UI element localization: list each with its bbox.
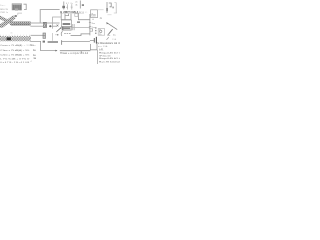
svg-text:Req=4.45 kO t: Req=4.45 kO t — [99, 57, 120, 60]
svg-text:Req=4.45 kO t: Req=4.45 kO t — [99, 52, 120, 55]
arrow into U2 — [56, 28, 61, 32]
U2 dark bar — [63, 23, 71, 25]
svg-text:2x Resistors tol 4: 2x Resistors tol 4 — [96, 41, 120, 45]
top-right hook — [109, 3, 111, 7]
relay K1 box — [98, 29, 104, 36]
svg-text:v..: v.. — [85, 12, 88, 14]
wire step from J1 — [20, 9, 22, 11]
svg-text:rm: rm — [10, 32, 13, 34]
bottom rail — [60, 50, 91, 52]
cross tick — [57, 25, 59, 27]
dark blob on band — [7, 37, 11, 40]
leader line — [107, 23, 118, 30]
switch SW1 — [108, 29, 113, 35]
wire top right drop — [78, 13, 90, 20]
svg-text:Mw: Mw — [30, 45, 34, 47]
lower rail — [61, 40, 90, 42]
svg-text:b R.: b R. — [99, 49, 104, 51]
right header box — [91, 10, 98, 18]
svg-text:L 7% % dB + 3 7% O: L 7% % dB + 3 7% O — [0, 58, 29, 60]
svg-text:R=1.78 3.04 tol: R=1.78 3.04 tol — [99, 60, 120, 63]
halftone bus band — [0, 36, 31, 41]
dashed link — [95, 27, 96, 28]
vertical crossing wire — [53, 17, 61, 29]
node dot — [57, 34, 59, 36]
resistor bar R3 — [43, 41, 45, 43]
shielded ribbon cable — [10, 22, 31, 25]
cable braid band B — [0, 16, 13, 26]
coil dashes — [64, 33, 66, 35]
step bracket — [89, 29, 93, 31]
wire mid left — [31, 34, 44, 36]
svg-text:m o. 1.5A: m o. 1.5A — [98, 45, 108, 48]
svg-text:C2ine = 75 dB(A) + 5%: C2ine = 75 dB(A) + 5% — [0, 54, 29, 57]
wire corner to top cluster — [40, 10, 59, 23]
polarized cap C1 — [43, 33, 46, 38]
U2 right pins — [72, 24, 74, 30]
svg-text:SPi bus 3.3: SPi bus 3.3 — [99, 55, 111, 57]
note band right — [107, 37, 109, 40]
wire after coil — [71, 34, 90, 36]
return loop box — [90, 44, 97, 50]
wire from FB1 — [47, 22, 60, 24]
rail stub — [80, 51, 82, 54]
wire from junction — [50, 25, 57, 27]
sparse dot row — [0, 34, 30, 36]
svg-text:PWR 1n: PWR 1n — [0, 12, 9, 14]
svg-text:MDL 5V: MDL 5V — [0, 9, 8, 11]
top cluster pin 1 — [63, 2, 65, 10]
rail tick 1 — [89, 21, 91, 23]
rail end tick — [61, 40, 63, 45]
faint cell — [115, 3, 117, 14]
right rail — [89, 14, 91, 35]
wire upper conductor — [30, 22, 43, 24]
svg-text:C1ine = 75 dB(A) + 5%: C1ine = 75 dB(A) + 5% — [0, 49, 29, 52]
wire lower conductor — [30, 25, 43, 27]
svg-text:c: c — [56, 31, 57, 33]
cable braid band A — [0, 15, 16, 27]
rail tick 2 — [89, 25, 91, 27]
node mark — [15, 15, 17, 17]
svg-text:Cmax = 75 dB(A): Cmax = 75 dB(A) — [0, 44, 22, 47]
bracket pin of J1 — [24, 4, 27, 9]
coil L1 hook — [61, 31, 62, 36]
U2 lower body — [62, 27, 71, 31]
junction dot — [49, 25, 51, 27]
connector J1 — [12, 4, 22, 10]
svg-text:5 v—: 5 v— — [0, 5, 6, 7]
svg-text:0 x 4 T B - 2 B r 4 1 0 B: 0 x 4 T B - 2 B r 4 1 0 B — [0, 61, 30, 64]
crossing vertical — [51, 33, 53, 41]
component U2 box — [61, 20, 71, 27]
wire from U2 right — [72, 27, 90, 29]
wire with arrow — [30, 41, 55, 50]
wires into U2 — [60, 12, 62, 20]
battery BT1 — [90, 39, 94, 41]
table border — [97, 50, 99, 64]
top-right wire — [106, 2, 108, 13]
ferrite bead FB1 — [43, 22, 46, 27]
svg-text:Hmax + u mp.Lr 2 b.14: Hmax + u mp.Lr 2 b.14 — [60, 52, 89, 55]
